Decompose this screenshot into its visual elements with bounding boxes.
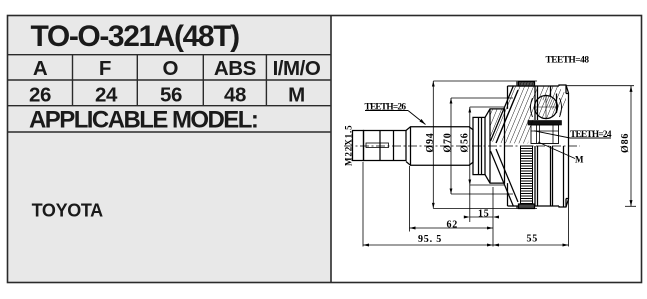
dim line 62 xyxy=(410,227,494,229)
table row lines xyxy=(7,54,331,56)
ball center marks xyxy=(534,95,559,120)
dia70 bottom extension xyxy=(451,193,513,195)
svg-text:TO-O-321A(48T): TO-O-321A(48T) xyxy=(31,20,240,53)
arrows dia56 xyxy=(468,107,471,113)
svg-text:Ø70: Ø70 xyxy=(442,132,453,152)
M leader xyxy=(538,142,575,159)
arrows dia94 xyxy=(432,81,435,87)
svg-text:APPLICABLE MODEL:: APPLICABLE MODEL: xyxy=(29,107,257,134)
svg-text:TOYOTA: TOYOTA xyxy=(32,201,104,221)
boot groove 1 xyxy=(473,117,485,174)
boot groove line b xyxy=(481,117,483,174)
inner race dark band xyxy=(528,121,562,126)
table background xyxy=(7,15,331,283)
svg-text:TEETH=24: TEETH=24 xyxy=(570,130,612,140)
dim line 15 xyxy=(470,216,493,218)
dim line 95.5 xyxy=(363,244,493,246)
inner race spline line v3 xyxy=(552,125,554,144)
TEETH=24 leader diagonal xyxy=(534,131,570,138)
svg-text:62: 62 xyxy=(447,219,459,230)
ABS ring rib column xyxy=(521,146,533,204)
nut and shaft section xyxy=(364,131,407,161)
svg-text:95. 5: 95. 5 xyxy=(418,234,442,245)
svg-text:F: F xyxy=(99,57,111,80)
dia86 bottom tick xyxy=(625,205,636,207)
svg-text:I/M/O: I/M/O xyxy=(273,57,321,80)
svg-text:Ø86: Ø86 xyxy=(620,133,631,153)
dim line 55 xyxy=(493,244,569,246)
hatch right wall xyxy=(528,72,600,125)
svg-text:48: 48 xyxy=(224,84,246,107)
svg-text:O: O xyxy=(163,57,179,80)
TEETH=26 leader diagonal xyxy=(408,111,426,125)
svg-text:M: M xyxy=(288,84,305,107)
dia56 dimension line / 15 left extension xyxy=(469,107,471,222)
svg-text:M22X1.5: M22X1.5 xyxy=(343,124,353,166)
arrows 95.5 xyxy=(363,244,369,247)
hatching xyxy=(460,72,600,155)
shaft internal line b xyxy=(393,131,395,161)
boot collar xyxy=(485,109,505,183)
bell mouth lip xyxy=(559,85,569,207)
svg-text:15: 15 xyxy=(478,208,490,219)
dia70 top extension xyxy=(451,97,513,99)
arrows 55 xyxy=(493,244,499,247)
bell cone upper diag 2 xyxy=(496,90,518,143)
bell mouth inner line xyxy=(566,85,569,207)
arrows dia86 xyxy=(630,86,633,92)
svg-text:Ø56: Ø56 xyxy=(459,132,470,152)
arrowheads xyxy=(363,81,633,247)
inner race spline box xyxy=(531,125,559,144)
95.5 left extension xyxy=(362,162,364,247)
thread section xyxy=(353,131,364,161)
svg-text:55: 55 xyxy=(527,234,539,245)
bell left vertical xyxy=(508,82,518,209)
hatch ring block xyxy=(505,78,547,92)
inner race spline mid line xyxy=(531,130,559,132)
62 left extension xyxy=(409,166,411,232)
ABS ring section block xyxy=(519,82,535,87)
slot on shaft xyxy=(366,143,389,148)
TEETH=26 leader underline xyxy=(365,110,408,112)
dia86 dimension line xyxy=(630,86,632,207)
boot groove line a xyxy=(478,117,480,174)
arrow leader teeth26 xyxy=(420,119,426,125)
inner race spline line v1 xyxy=(536,125,538,144)
arrows dia70 xyxy=(450,98,453,104)
55 right extension xyxy=(568,199,570,247)
hatch ball xyxy=(520,75,592,128)
cage arc left xyxy=(531,98,533,117)
ball xyxy=(535,96,558,119)
svg-text:Ø94: Ø94 xyxy=(425,132,436,152)
table column lines xyxy=(72,55,74,106)
table divider vertical xyxy=(330,15,332,283)
bell cone upper diag 1 xyxy=(491,86,514,142)
dia70 dimension line xyxy=(450,98,452,194)
bell cone lower diag 1 xyxy=(491,151,514,207)
svg-text:26: 26 xyxy=(29,84,51,107)
svg-text:56: 56 xyxy=(160,84,182,107)
bell body top and bottom surface xyxy=(508,86,560,206)
svg-text:TEETH=48: TEETH=48 xyxy=(546,56,590,66)
TEETH=24 leader underline xyxy=(570,137,611,139)
dia94 top extension xyxy=(433,80,537,82)
svg-text:M: M xyxy=(575,154,584,164)
svg-text:A: A xyxy=(33,57,48,80)
dia56 top extension xyxy=(470,106,505,108)
arrows 62 xyxy=(410,227,416,230)
bell verticals right of ring xyxy=(535,86,564,207)
inner race spline line v2 xyxy=(539,125,541,144)
ABS ring bottom rim xyxy=(519,204,535,209)
arrows 15 xyxy=(464,216,470,219)
svg-text:TEETH=26: TEETH=26 xyxy=(365,103,407,113)
leaders and labels xyxy=(365,111,611,159)
shaft internal line a xyxy=(379,131,381,161)
svg-text:ABS: ABS xyxy=(214,57,256,80)
hatch bell left wall xyxy=(460,83,576,155)
bell cone lower diag 2 xyxy=(496,149,518,202)
spline section TEETH=26 xyxy=(406,127,473,166)
dia94 dimension line xyxy=(432,81,434,208)
centerline xyxy=(344,145,580,147)
cage arc right xyxy=(560,98,562,117)
dia56 bottom extension xyxy=(470,184,505,186)
dia94 bottom extension xyxy=(433,208,537,210)
svg-text:24: 24 xyxy=(95,84,118,107)
common extension at 496.6 xyxy=(492,187,494,247)
